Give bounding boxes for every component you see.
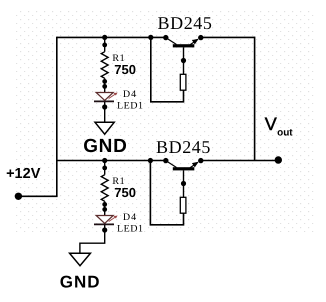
svg-text:out: out <box>277 128 293 139</box>
svg-text:LED1: LED1 <box>117 224 143 235</box>
svg-text:V: V <box>265 114 277 134</box>
svg-text:D4: D4 <box>123 89 137 100</box>
svg-text:750: 750 <box>114 62 136 77</box>
svg-text:750: 750 <box>114 185 136 200</box>
svg-text:LED1: LED1 <box>117 101 143 112</box>
svg-text:GND: GND <box>60 272 101 291</box>
svg-text:D4: D4 <box>123 212 137 223</box>
svg-text:BD245: BD245 <box>158 13 213 33</box>
svg-text:BD245: BD245 <box>156 137 211 157</box>
svg-text:GND: GND <box>83 136 127 157</box>
svg-text:+12V: +12V <box>6 166 41 182</box>
